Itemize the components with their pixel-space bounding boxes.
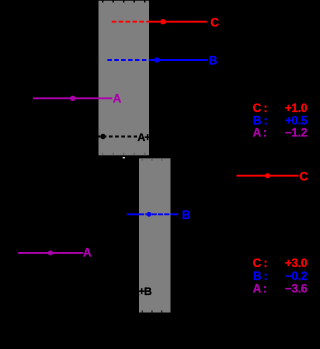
svg-text:+0.5: +0.5 xyxy=(285,114,308,127)
errorbar C (top subplot) xyxy=(112,16,220,30)
legend text block (top subplot) xyxy=(253,102,308,140)
svg-text:B: B xyxy=(209,54,218,68)
svg-text:A: A xyxy=(113,92,122,106)
svg-text:+1.0: +1.0 xyxy=(285,102,308,115)
errorbar A+B (bottom subplot, line hidden on black) xyxy=(108,286,152,298)
svg-text:A+B: A+B xyxy=(137,132,157,144)
top axis ticks (bottom subplot, faint) xyxy=(142,158,161,161)
gray ROPE band (bottom subplot) xyxy=(139,158,171,312)
top axis ticks (top subplot, top spine) xyxy=(103,0,145,3)
svg-text:C: C xyxy=(300,169,309,183)
svg-text:B :: B : xyxy=(253,114,267,127)
svg-text:B :: B : xyxy=(253,270,267,283)
svg-text:C: C xyxy=(210,16,219,30)
gray ROPE band (top subplot) xyxy=(99,1,150,156)
svg-text:−1.2: −1.2 xyxy=(285,127,308,140)
svg-text:+3.0: +3.0 xyxy=(285,257,308,270)
errorbar A (top subplot) xyxy=(33,92,122,106)
svg-text:−3.6: −3.6 xyxy=(285,282,308,295)
svg-text:C :: C : xyxy=(253,257,267,270)
svg-text:A :: A : xyxy=(253,127,267,140)
svg-text:−0.2: −0.2 xyxy=(285,270,308,283)
errorbar B (bottom subplot) xyxy=(127,208,191,222)
errorbar A (bottom subplot) xyxy=(18,245,92,259)
svg-text:A: A xyxy=(83,245,92,259)
errorbar A+B (top subplot) xyxy=(97,132,158,144)
bottom axis ticks (bottom subplot) xyxy=(142,310,161,312)
errorbar B (top subplot) xyxy=(107,54,217,68)
svg-text:A+B: A+B xyxy=(132,286,152,298)
errorbar C (bottom subplot) xyxy=(237,169,309,183)
svg-text:B: B xyxy=(182,208,191,222)
legend text block (bottom subplot) xyxy=(253,257,308,295)
bottom axis ticks (top subplot, bottom spine, faint) xyxy=(103,153,145,156)
svg-text:C :: C : xyxy=(253,102,267,115)
svg-text:A :: A : xyxy=(253,282,267,295)
white speck (tick label remnant between subplots) xyxy=(123,157,125,158)
